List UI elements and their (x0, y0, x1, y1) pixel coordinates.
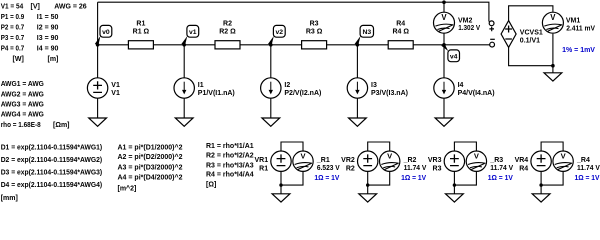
svg-text:R4: R4 (396, 20, 405, 27)
wire node to I4 (443, 45, 445, 78)
svg-text:I3 = 90: I3 = 90 (37, 35, 59, 42)
svg-text:0.1/V1: 0.1/V1 (520, 38, 540, 45)
svg-text:P3 = 0.7: P3 = 0.7 (1, 35, 25, 42)
svg-text:AWG2 = AWG: AWG2 = AWG (1, 91, 45, 98)
voltage source VR2 (358, 151, 378, 171)
resistor R4 (388, 41, 413, 49)
ground VR1 group (272, 194, 290, 202)
svg-text:6.523 V: 6.523 V (317, 165, 340, 172)
svg-text:I3: I3 (371, 82, 377, 89)
text block A equations (118, 143, 183, 192)
wire VR4 to ground (540, 185, 542, 194)
text block R equations (206, 143, 254, 188)
terminal - sign (490, 38, 495, 40)
ground below I3 (349, 118, 367, 126)
current source I3 (347, 78, 367, 98)
wire I1 to ground (183, 98, 185, 118)
text block D equations (1, 144, 103, 202)
svg-text:P2 = 0.7: P2 = 0.7 (1, 25, 25, 32)
svg-text:_R4: _R4 (576, 157, 590, 164)
current source I4 (434, 78, 454, 98)
svg-text:R2: R2 (223, 20, 232, 27)
svg-text:_R1: _R1 (316, 157, 330, 164)
svg-text:P1/V(I1.nA): P1/V(I1.nA) (198, 90, 235, 97)
svg-text:[W]: [W] (13, 56, 24, 63)
svg-text:v0: v0 (102, 29, 110, 36)
svg-text:I2: I2 (284, 82, 290, 89)
wire VCVS loop top (509, 6, 553, 21)
svg-text:N3: N3 (362, 29, 371, 36)
svg-text:AWG3 = AWG: AWG3 = AWG (1, 102, 45, 109)
ground below I1 (175, 118, 193, 126)
svg-text:VR2: VR2 (341, 157, 355, 164)
svg-text:A4 = pi*(D4/2000)^2: A4 = pi*(D4/2000)^2 (118, 174, 183, 182)
svg-text:1Ω = 1V: 1Ω = 1V (401, 175, 426, 182)
voltmeter _R1 (293, 151, 313, 171)
svg-text:AWG1 = AWG: AWG1 = AWG (1, 81, 45, 88)
node v4 junction dot (442, 43, 446, 47)
svg-text:1Ω = 1V: 1Ω = 1V (575, 175, 600, 182)
svg-text:R1: R1 (259, 166, 268, 173)
wire loop VR2 group bottom (368, 171, 390, 186)
svg-text:R1 Ω: R1 Ω (133, 28, 150, 35)
VCVS1 controlled source (diamond) (501, 21, 516, 48)
svg-text:[Ω]: [Ω] (206, 182, 216, 189)
svg-text:P1 = 0.9: P1 = 0.9 (1, 14, 25, 21)
current source I2 (261, 78, 281, 98)
terminal - (open circle) (490, 42, 495, 47)
ground below V1 (89, 118, 107, 126)
svg-text:D4 = exp(2.1104-0.11594*AWG4): D4 = exp(2.1104-0.11594*AWG4) (1, 182, 103, 189)
svg-text:I1 = 50: I1 = 50 (37, 14, 59, 21)
wire VR1 to ground (280, 185, 282, 194)
terminal + sign (489, 27, 494, 32)
svg-text:[V]: [V] (31, 4, 40, 11)
wire node to I2 (270, 45, 272, 78)
node N3 callout box (360, 25, 373, 37)
ground right loop (544, 73, 562, 81)
svg-text:1Ω = 1V: 1Ω = 1V (488, 175, 513, 182)
voltage source VR1 (271, 151, 291, 171)
svg-text:11.74 V: 11.74 V (577, 165, 600, 172)
resistor R3 (302, 41, 327, 49)
svg-text:[m^2]: [m^2] (118, 185, 137, 193)
node v4 callout box (448, 50, 460, 62)
node N3 junction dot (356, 43, 360, 47)
svg-text:R4: R4 (519, 166, 528, 173)
svg-text:P4 = 0.7: P4 = 0.7 (1, 46, 25, 53)
wire main horizontal v0-v1-v2-N3-v4 to - terminal (98, 44, 490, 46)
svg-text:1.302 V: 1.302 V (458, 25, 480, 32)
svg-text:P3/V(I3.nA): P3/V(I3.nA) (371, 90, 408, 97)
svg-text:R2: R2 (346, 166, 355, 173)
current source I1 (174, 78, 194, 98)
svg-text:[mm]: [mm] (1, 195, 18, 202)
junction dot VR2 group (366, 183, 369, 186)
text block AWG assignments (1, 81, 70, 129)
ground below I2 (262, 118, 280, 126)
svg-text:1% = 1mV: 1% = 1mV (562, 47, 595, 54)
junction dot VR3 group (453, 183, 456, 186)
svg-text:AWG4 = AWG: AWG4 = AWG (1, 112, 45, 119)
svg-text:v4: v4 (450, 54, 458, 61)
wire loop VR4 group top (541, 142, 563, 152)
svg-text:I4: I4 (458, 82, 464, 89)
wire v0 column vertical (97, 2, 99, 78)
resistor R1 (128, 41, 153, 49)
ground VR2 group (359, 194, 377, 202)
wire I3 to ground (356, 98, 358, 118)
node v2 junction dot (269, 43, 273, 47)
svg-text:I2 = 90: I2 = 90 (37, 25, 59, 32)
svg-text:_R2: _R2 (403, 157, 417, 164)
wire VR2 to ground (367, 185, 369, 194)
wire VCVS loop bottom (509, 34, 553, 66)
svg-text:11.74 V: 11.74 V (404, 165, 427, 172)
voltage source VR3 (444, 151, 464, 171)
ground below I4 (435, 118, 453, 126)
wire loop VR4 group bottom (541, 171, 563, 186)
voltmeter VM2 (434, 12, 455, 33)
wire loop VR3 group bottom (454, 171, 476, 186)
junction dot VCVS loop bottom (551, 64, 555, 68)
svg-text:A1 = pi*(D1/2000)^2: A1 = pi*(D1/2000)^2 (118, 143, 183, 151)
wire loop VR1 group top (281, 142, 303, 152)
resistor R2 (215, 41, 240, 49)
wire I4 to ground (443, 98, 445, 118)
svg-text:R1 = rho*I1/A1: R1 = rho*I1/A1 (206, 143, 254, 150)
svg-text:2.411 mV: 2.411 mV (566, 25, 595, 32)
svg-text:VR1: VR1 (254, 157, 268, 164)
terminal + (open circle) (489, 21, 494, 26)
junction dot VR1 group (279, 183, 282, 186)
svg-text:A3 = pi*(D3/2000)^2: A3 = pi*(D3/2000)^2 (118, 164, 183, 172)
voltage source VR4 (531, 151, 551, 171)
svg-text:V1: V1 (111, 90, 120, 97)
junction dot top rail at VM2 (442, 0, 446, 4)
node v0 junction dot (96, 43, 100, 47)
svg-text:R3: R3 (433, 166, 442, 173)
voltage source V1 (87, 78, 107, 98)
node v1 callout box (187, 25, 199, 37)
voltmeter _R2 (380, 151, 400, 171)
voltmeter _R3 (466, 151, 486, 171)
svg-text:VM2: VM2 (458, 17, 473, 24)
svg-text:R3 = rho*I3/A3: R3 = rho*I3/A3 (206, 162, 254, 169)
wire node to I1 (183, 45, 185, 78)
text block top-left parameters (1, 4, 87, 63)
node v0 callout box (100, 25, 112, 37)
ground VR3 group (446, 194, 464, 202)
wire loop VR3 group top (454, 142, 476, 152)
svg-text:rho = 1.68E-8: rho = 1.68E-8 (1, 122, 41, 129)
svg-text:VM1: VM1 (566, 18, 581, 25)
wire VM2 top (443, 2, 445, 12)
svg-text:R4 Ω: R4 Ω (392, 28, 409, 35)
wire VR3 to ground (453, 185, 455, 194)
wire V1 to ground (97, 98, 99, 118)
svg-text:VR4: VR4 (515, 157, 529, 164)
svg-text:VCVS1: VCVS1 (520, 29, 543, 36)
wire loop VR1 group bottom (281, 171, 303, 186)
svg-text:R3: R3 (310, 20, 319, 27)
junction dot VR4 group (539, 183, 542, 186)
wire loop VR2 group top (368, 142, 390, 152)
svg-text:V1 = 54: V1 = 54 (1, 4, 24, 11)
svg-text:AWG = 26: AWG = 26 (54, 4, 87, 11)
svg-text:v2: v2 (276, 29, 284, 36)
svg-text:11.74 V: 11.74 V (490, 165, 513, 172)
svg-text:_R3: _R3 (489, 157, 503, 164)
svg-text:D1 = exp(2.1104-0.11594*AWG1): D1 = exp(2.1104-0.11594*AWG1) (1, 144, 103, 151)
svg-text:R4 = rho*I4/A4: R4 = rho*I4/A4 (206, 172, 254, 179)
voltmeter _R4 (553, 151, 573, 171)
svg-text:R3 Ω: R3 Ω (306, 28, 323, 35)
svg-text:[Ωm]: [Ωm] (53, 122, 70, 129)
svg-text:[m]: [m] (48, 56, 59, 63)
wire to ground right loop (552, 66, 554, 73)
node v2 callout box (273, 25, 285, 37)
wire node to I3 (356, 45, 358, 78)
svg-text:R1: R1 (136, 20, 145, 27)
svg-text:D3 = exp(2.1104-0.11594*AWG3): D3 = exp(2.1104-0.11594*AWG3) (1, 170, 103, 177)
voltmeter VM1 (542, 12, 563, 33)
svg-text:1Ω = 1V: 1Ω = 1V (314, 175, 339, 182)
ground VR4 group (532, 194, 550, 202)
svg-text:P4/V(I4.nA): P4/V(I4.nA) (458, 90, 495, 97)
svg-text:A2 = pi*(D2/2000)^2: A2 = pi*(D2/2000)^2 (118, 153, 183, 161)
svg-text:D2 = exp(2.1104-0.11594*AWG2): D2 = exp(2.1104-0.11594*AWG2) (1, 157, 103, 164)
wire top rail v0 to + terminal (98, 2, 489, 21)
wire VM2 bottom to v4 node (443, 33, 445, 45)
svg-text:VR3: VR3 (428, 157, 442, 164)
svg-text:P2/V(I2.nA): P2/V(I2.nA) (284, 90, 321, 97)
wire I2 to ground (270, 98, 272, 118)
svg-text:V1: V1 (111, 82, 120, 89)
svg-text:R2 = rho*I2/A2: R2 = rho*I2/A2 (206, 153, 254, 160)
svg-text:I1: I1 (198, 82, 204, 89)
svg-text:v1: v1 (189, 29, 197, 36)
svg-text:I4 = 90: I4 = 90 (37, 46, 59, 53)
node v1 junction dot (182, 43, 186, 47)
svg-text:R2 Ω: R2 Ω (219, 28, 236, 35)
